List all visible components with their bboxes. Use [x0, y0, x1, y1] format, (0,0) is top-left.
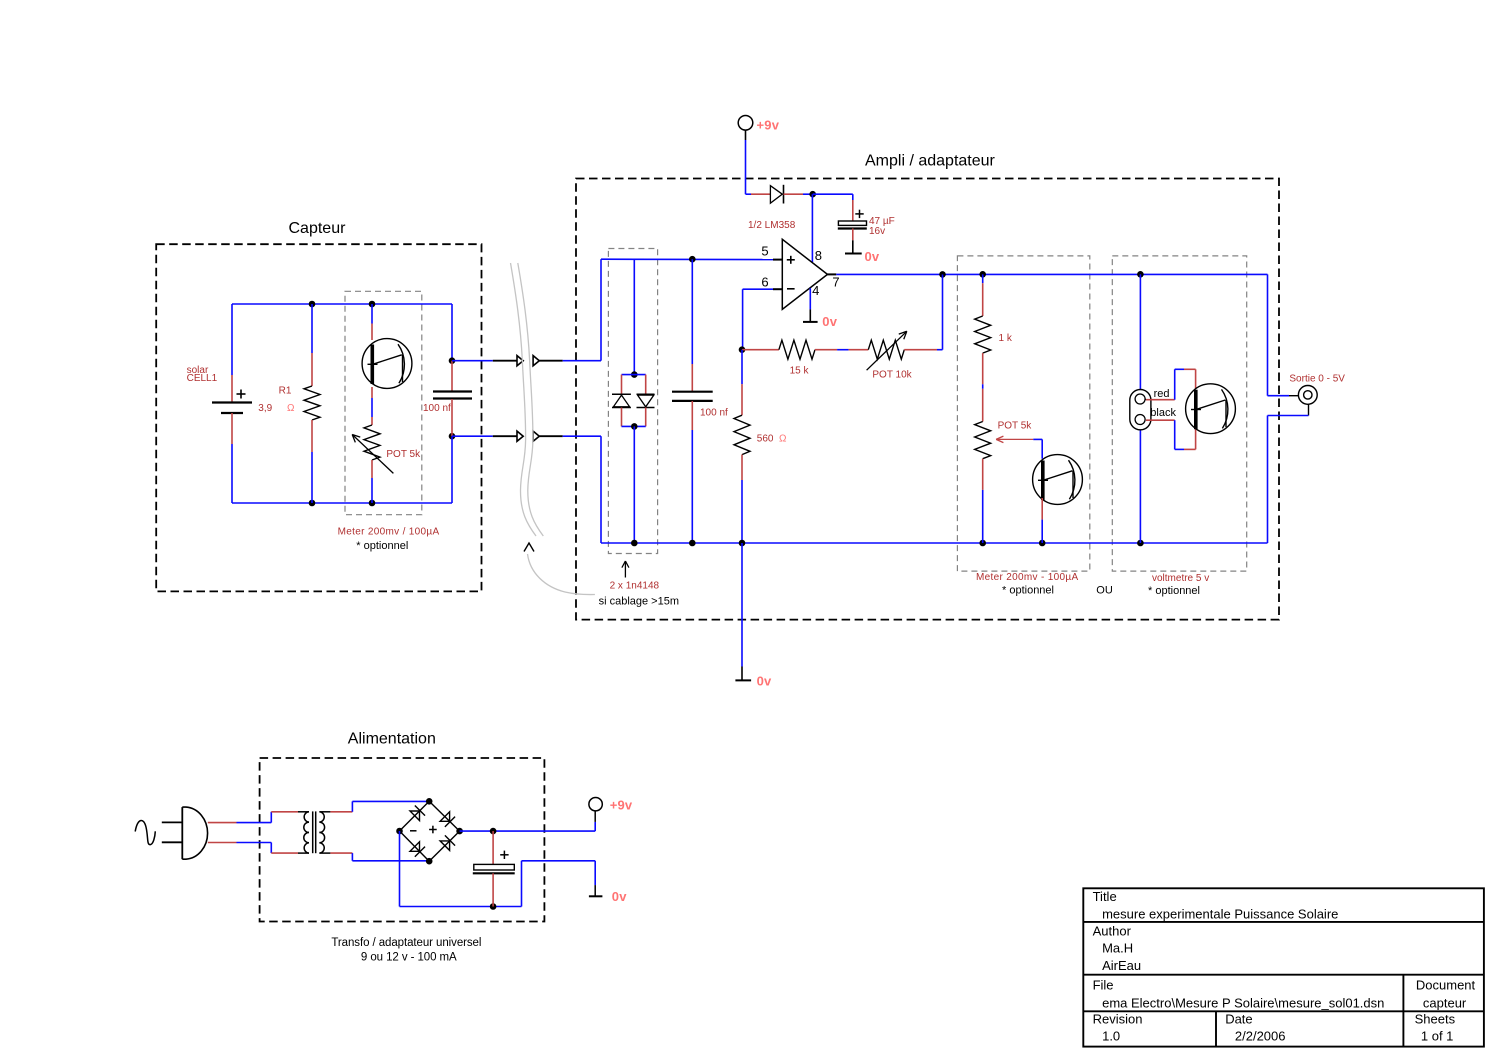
svg-text:0v: 0v — [865, 249, 880, 264]
svg-text:Sheets: Sheets — [1415, 1011, 1456, 1026]
svg-text:capteur: capteur — [1423, 995, 1467, 1010]
svg-text:0v: 0v — [822, 314, 837, 329]
svg-text:7: 7 — [832, 275, 839, 290]
svg-text:2 x 1n4148: 2 x 1n4148 — [610, 581, 660, 592]
svg-text:1 of 1: 1 of 1 — [1421, 1029, 1454, 1044]
svg-text:black: black — [1150, 407, 1176, 419]
svg-text:Meter 200mv - 100µA: Meter 200mv - 100µA — [976, 572, 1078, 583]
svg-text:Meter 200mv / 100µA: Meter 200mv / 100µA — [338, 527, 440, 538]
svg-text:voltmetre 5 v: voltmetre 5 v — [1152, 573, 1209, 584]
svg-text:Alimentation: Alimentation — [348, 731, 436, 748]
svg-text:Date: Date — [1225, 1011, 1252, 1026]
svg-text:1.0: 1.0 — [1102, 1029, 1120, 1044]
svg-text:POT 10k: POT 10k — [872, 370, 912, 381]
svg-text:+9v: +9v — [757, 118, 780, 133]
svg-text:File: File — [1093, 978, 1114, 993]
svg-text:Author: Author — [1093, 924, 1132, 939]
svg-text:ema Electro\Mesure P Solaire\m: ema Electro\Mesure P Solaire\mesure_sol0… — [1102, 995, 1384, 1010]
svg-text:* optionnel: * optionnel — [356, 540, 408, 552]
svg-text:8: 8 — [815, 248, 822, 263]
svg-text:Document: Document — [1416, 978, 1476, 993]
svg-text:mesure experimentale Puissance: mesure experimentale Puissance Solaire — [1102, 906, 1338, 921]
svg-text:POT 5k: POT 5k — [998, 421, 1033, 432]
svg-text:Ω: Ω — [287, 403, 295, 414]
svg-text:Ω: Ω — [779, 434, 787, 445]
svg-text:15 k: 15 k — [790, 366, 810, 377]
svg-text:9 ou 12 v - 100 mA: 9 ou 12 v - 100 mA — [361, 952, 457, 964]
svg-text:100 nf: 100 nf — [700, 407, 728, 418]
svg-text:6: 6 — [761, 274, 768, 289]
svg-text:Capteur: Capteur — [289, 220, 347, 237]
svg-text:Ma.H: Ma.H — [1102, 941, 1133, 956]
svg-text:* optionnel: * optionnel — [1148, 585, 1200, 597]
svg-text:1/2 LM358: 1/2 LM358 — [748, 220, 796, 231]
svg-text:4: 4 — [812, 283, 819, 298]
svg-text:POT 5k: POT 5k — [386, 449, 421, 460]
svg-text:560: 560 — [757, 434, 774, 445]
svg-text:3,9: 3,9 — [258, 403, 272, 414]
svg-text:+9v: +9v — [610, 798, 633, 813]
svg-text:CELL1: CELL1 — [187, 373, 218, 384]
svg-text:Revision: Revision — [1093, 1011, 1143, 1026]
svg-text:2/2/2006: 2/2/2006 — [1235, 1029, 1286, 1044]
svg-text:1 k: 1 k — [999, 333, 1013, 344]
svg-text:R1: R1 — [279, 385, 292, 396]
svg-text:5: 5 — [761, 244, 768, 259]
svg-text:OU: OU — [1096, 585, 1113, 597]
svg-text:* optionnel: * optionnel — [1002, 585, 1054, 597]
svg-text:red: red — [1154, 388, 1170, 400]
svg-text:Title: Title — [1093, 889, 1117, 904]
svg-text:Ampli / adaptateur: Ampli / adaptateur — [865, 153, 996, 170]
svg-text:0v: 0v — [757, 674, 772, 689]
svg-text:0v: 0v — [612, 889, 627, 904]
svg-text:16v: 16v — [869, 226, 885, 237]
svg-text:Sortie 0 - 5V: Sortie 0 - 5V — [1289, 374, 1345, 385]
svg-text:si cablage >15m: si cablage >15m — [599, 596, 679, 608]
svg-text:100 nf: 100 nf — [423, 403, 451, 414]
svg-text:Transfo / adaptateur universel: Transfo / adaptateur universel — [331, 937, 481, 949]
svg-text:AirEau: AirEau — [1102, 958, 1141, 973]
